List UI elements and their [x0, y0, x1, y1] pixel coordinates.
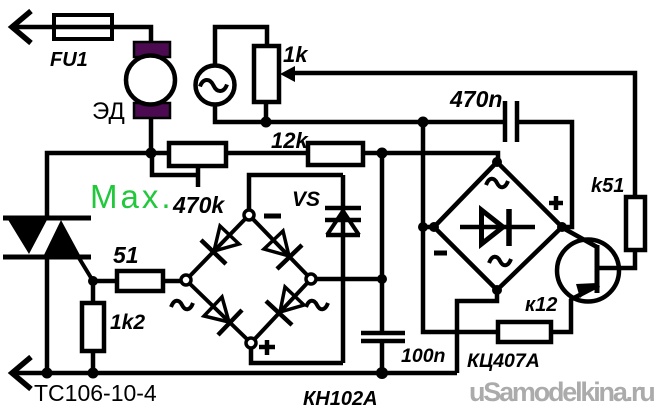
bridge VD2 inner diode line: [460, 225, 535, 230]
bridge VD1 diode bottom-left bar: [218, 310, 242, 335]
node: gate junction: [88, 276, 98, 286]
bridge VD2 inner diode triangle: [482, 210, 504, 244]
svg-text:Max.: Max.: [90, 178, 174, 215]
triac VS1 bottom bar: [3, 255, 91, 260]
svg-text:12k: 12k: [271, 128, 309, 153]
wire: VD1 top vertex loop to VS: [249, 175, 343, 210]
wire: gate down to 1k2: [91, 281, 96, 303]
transistor VT1 emitter diagonal: [570, 285, 599, 300]
wire: 1k2 to rail: [91, 351, 96, 373]
svg-text:51: 51: [113, 242, 139, 268]
wire: vertical from node 122 down to 332: [423, 122, 498, 332]
svg-text:КЦ407А: КЦ407А: [467, 350, 540, 372]
bridge VD1 diode top-right triangle: [264, 231, 289, 256]
wire: main horizontal left segment to 470k: [47, 153, 169, 218]
wire: motor bottom to main node: [149, 117, 154, 153]
wire: bridge bottom vertex to vertical 457: [457, 290, 497, 373]
triac VS1 top bar: [3, 216, 91, 221]
capacitor 470n right plate: [515, 101, 520, 142]
svg-text:470k: 470k: [172, 192, 225, 218]
wire: bottom rail: [12, 371, 457, 376]
arrow: mains top-left: [12, 11, 31, 43]
node: motor junction on main wire: [146, 148, 157, 159]
triac VS1 left triangle: [7, 218, 48, 254]
dinistor VS base bar: [326, 233, 360, 238]
motor ЭД brush top: [134, 42, 170, 57]
wire: VD1 right vertex to vertical 382: [316, 277, 382, 282]
transistor VT1 body: [557, 240, 619, 302]
dinistor VS middle bar: [325, 218, 361, 223]
node: bridge right vertex: [557, 222, 567, 232]
svg-text:ТС106-10-4: ТС106-10-4: [34, 380, 157, 406]
wire: 470n right to bridge + vertex: [517, 122, 572, 227]
svg-text:1k: 1k: [283, 42, 309, 67]
bridge VD1 diode bottom-right triangle: [280, 287, 304, 312]
bridge VD2 minus sign: [434, 251, 447, 256]
svg-text:КН102А: КН102А: [303, 388, 378, 410]
potentiometer 1k body: [254, 46, 279, 102]
wire: generator top loop to 1k pot: [215, 27, 267, 65]
svg-text:k51: k51: [591, 175, 624, 197]
capacitor 100n top plate: [361, 331, 405, 336]
node: bridge left vertex: [429, 222, 439, 232]
bridge VD1 diode bottom-left triangle: [204, 297, 229, 322]
wire: between 470k and 12k: [226, 151, 308, 156]
node: bridge bottom vertex: [492, 285, 502, 295]
wire: 100n to rail: [380, 341, 385, 373]
wire: 470k wiper stub: [196, 166, 201, 187]
wire: triac gate diagonal: [79, 258, 93, 281]
transistor VT1 emitter arrow: [576, 283, 597, 298]
wire: 51 to left bridge left vertex: [163, 279, 182, 284]
dinistor VS vertical lead: [341, 175, 346, 363]
wire: 470k rheostat wiper link: [152, 155, 198, 175]
motor ЭД body: [126, 56, 175, 105]
potentiometer 470k body: [169, 143, 226, 166]
node: 1k bottom junction: [261, 117, 272, 128]
node: VD1 bottom vertex ring: [246, 338, 256, 348]
wire: VD1 bottom vertex loop to VS: [251, 348, 343, 363]
triac VS1 right triangle: [43, 220, 81, 257]
node: triac rail junction: [42, 368, 53, 379]
AC generator G1: [196, 66, 235, 105]
resistor k51: [626, 197, 645, 250]
node: 100n rail junction: [376, 367, 388, 379]
motor ЭД brush bottom: [134, 103, 170, 118]
wire: link to bridge left vertex: [423, 225, 434, 230]
bridge VD2 inner diode bar: [506, 209, 512, 246]
node: VD1 right vertex ring: [306, 274, 316, 284]
bridge VD2 ~ top: [486, 179, 508, 188]
dinistor bridge VD1 КН102А diamond: [186, 215, 311, 343]
arrow: bottom-left rail arrow: [12, 357, 31, 389]
bridge VD1 minus sign: [264, 214, 281, 219]
svg-text:к12: к12: [525, 294, 557, 316]
resistor 12k: [308, 143, 363, 165]
node: VD1 left vertex ring: [181, 275, 191, 285]
transistor VT1 base bar: [595, 245, 600, 293]
wire: к12 right lead to transistor emitter: [551, 299, 571, 332]
svg-text:uSamodelkina.ru: uSamodelkina.ru: [469, 377, 654, 407]
wire: mains input top with fuse, from arrow to motor corner: [12, 27, 151, 43]
wire: wiper to right column: [293, 73, 635, 197]
svg-text:470n: 470n: [449, 86, 502, 112]
dinistor VS top bar: [325, 206, 361, 211]
fuse FU1: [54, 15, 112, 39]
bridge VD2 plus sign: [549, 196, 563, 210]
bridge VD1 ~ left: [171, 301, 193, 310]
bridge VD1 diode top-left bar: [201, 240, 226, 264]
wire: generator bottom lead: [215, 104, 505, 122]
wire: vertical 382 from 12k junction to 100n: [380, 153, 385, 333]
svg-text:FU1: FU1: [50, 49, 88, 71]
wire: gate to 51 resistor: [93, 279, 117, 284]
transistor VT1 base lead diagonal: [563, 228, 597, 247]
svg-text:1k2: 1k2: [110, 311, 145, 334]
node: bridge top vertex: [492, 157, 502, 167]
node: VD1 top vertex ring: [244, 210, 254, 220]
dinistor VS triangle left side: [327, 211, 343, 235]
bridge VD1 diode bottom-right bar: [266, 301, 292, 325]
node: junction 382/279: [377, 274, 387, 284]
resistor к12: [498, 322, 551, 342]
wire: 12k to right bridge top: [363, 153, 498, 162]
node: junction wire 122 and vertical 423: [418, 117, 429, 128]
AC generator sine: [200, 80, 227, 91]
resistor 51: [117, 271, 163, 291]
bridge VD1 diode top-right bar: [277, 245, 302, 269]
transistor VT1 collector wire to k51: [597, 250, 635, 268]
wire: 1k bottom lead: [264, 102, 269, 122]
resistor 1k2: [82, 303, 104, 351]
node: junction of 12k wire and vertical to 100n: [377, 148, 388, 159]
svg-text:100n: 100n: [401, 345, 446, 367]
diode bridge VD2 КЦ407А diamond: [434, 162, 562, 290]
node: 1k2 rail junction: [88, 368, 99, 379]
bridge VD2 ~ bottom: [489, 257, 511, 266]
bridge VD1 ~ right: [306, 301, 328, 310]
node: junction to bridge - vertex: [418, 222, 428, 232]
dinistor VS triangle right side: [343, 211, 359, 235]
bridge VD1 diode top-left triangle: [201, 226, 304, 335]
wire: triac bottom to rail: [45, 257, 50, 373]
capacitor 100n bottom plate: [361, 339, 405, 344]
svg-text:VS: VS: [292, 188, 320, 211]
capacitor 470n left plate: [503, 101, 508, 142]
bridge VD1 plus sign: [259, 340, 275, 355]
svg-text:ЭД: ЭД: [92, 98, 125, 125]
1k wiper arrowhead: [280, 66, 295, 82]
